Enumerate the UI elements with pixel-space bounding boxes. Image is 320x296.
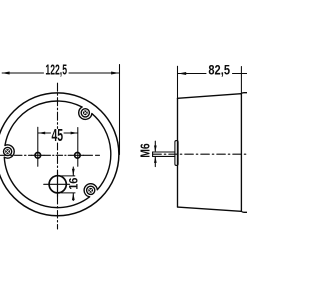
- arrow left of 45: [38, 132, 45, 135]
- arrow stems of 16: [72, 167, 74, 176]
- screw hole left: [4, 147, 12, 155]
- cable entry hole dia 16: [49, 176, 66, 193]
- arrow left of 122,5: [1, 72, 9, 75]
- horizontal centerline of front view: [1, 154, 32, 156]
- svg-text:82,5: 82,5: [208, 63, 230, 78]
- arrow left of 82,5: [178, 72, 186, 75]
- M6 stud: [153, 151, 175, 153]
- screw hole bottom-right: [87, 186, 95, 194]
- M6 stud pad on face: [175, 141, 178, 166]
- extension line right of 82,5 / lens seam extension: [240, 67, 242, 94]
- vertical centerline of front view: [57, 83, 59, 128]
- extension line top of 16: [60, 175, 75, 177]
- svg-text:45: 45: [52, 125, 64, 145]
- dim line 82,5: [178, 73, 206, 75]
- extension line left of 45: [37, 127, 39, 166]
- extension line left of 82,5: [177, 66, 179, 97]
- lens bottom edge: [241, 210, 247, 213]
- arrow right of 45: [71, 132, 78, 135]
- side view mounting face: [177, 98, 179, 207]
- arrow bottom of M6: [154, 156, 157, 163]
- extension line bottom of 16: [62, 192, 76, 194]
- arrow top of 16: [72, 169, 75, 176]
- mounting hole right (45 pair): [75, 153, 81, 159]
- extension line right of 45: [77, 128, 79, 167]
- screw hole top-right: [81, 109, 89, 117]
- lens top edge: [241, 92, 247, 95]
- side view axis centerline: [153, 153, 247, 155]
- lamp base inner rim with notch bumps around screws: [4, 101, 111, 208]
- svg-text:M6: M6: [137, 143, 152, 157]
- dim line 122,5: [2, 72, 43, 74]
- arrow bottom of 16: [72, 193, 75, 200]
- dim line 45: [38, 132, 50, 134]
- svg-text:122,5: 122,5: [45, 63, 67, 79]
- arrow right of 122,5: [111, 72, 119, 75]
- side view housing cone: [178, 94, 242, 212]
- arrow top of M6: [154, 146, 157, 153]
- extension line right of 122,5: [119, 65, 121, 155]
- lamp base outer flange circle: [0, 93, 119, 216]
- horizontal centerline through cable hole: [44, 183, 70, 185]
- arrow stems of M6: [154, 141, 156, 151]
- mounting hole left (45 pair): [35, 153, 41, 159]
- svg-text:16: 16: [66, 177, 80, 189]
